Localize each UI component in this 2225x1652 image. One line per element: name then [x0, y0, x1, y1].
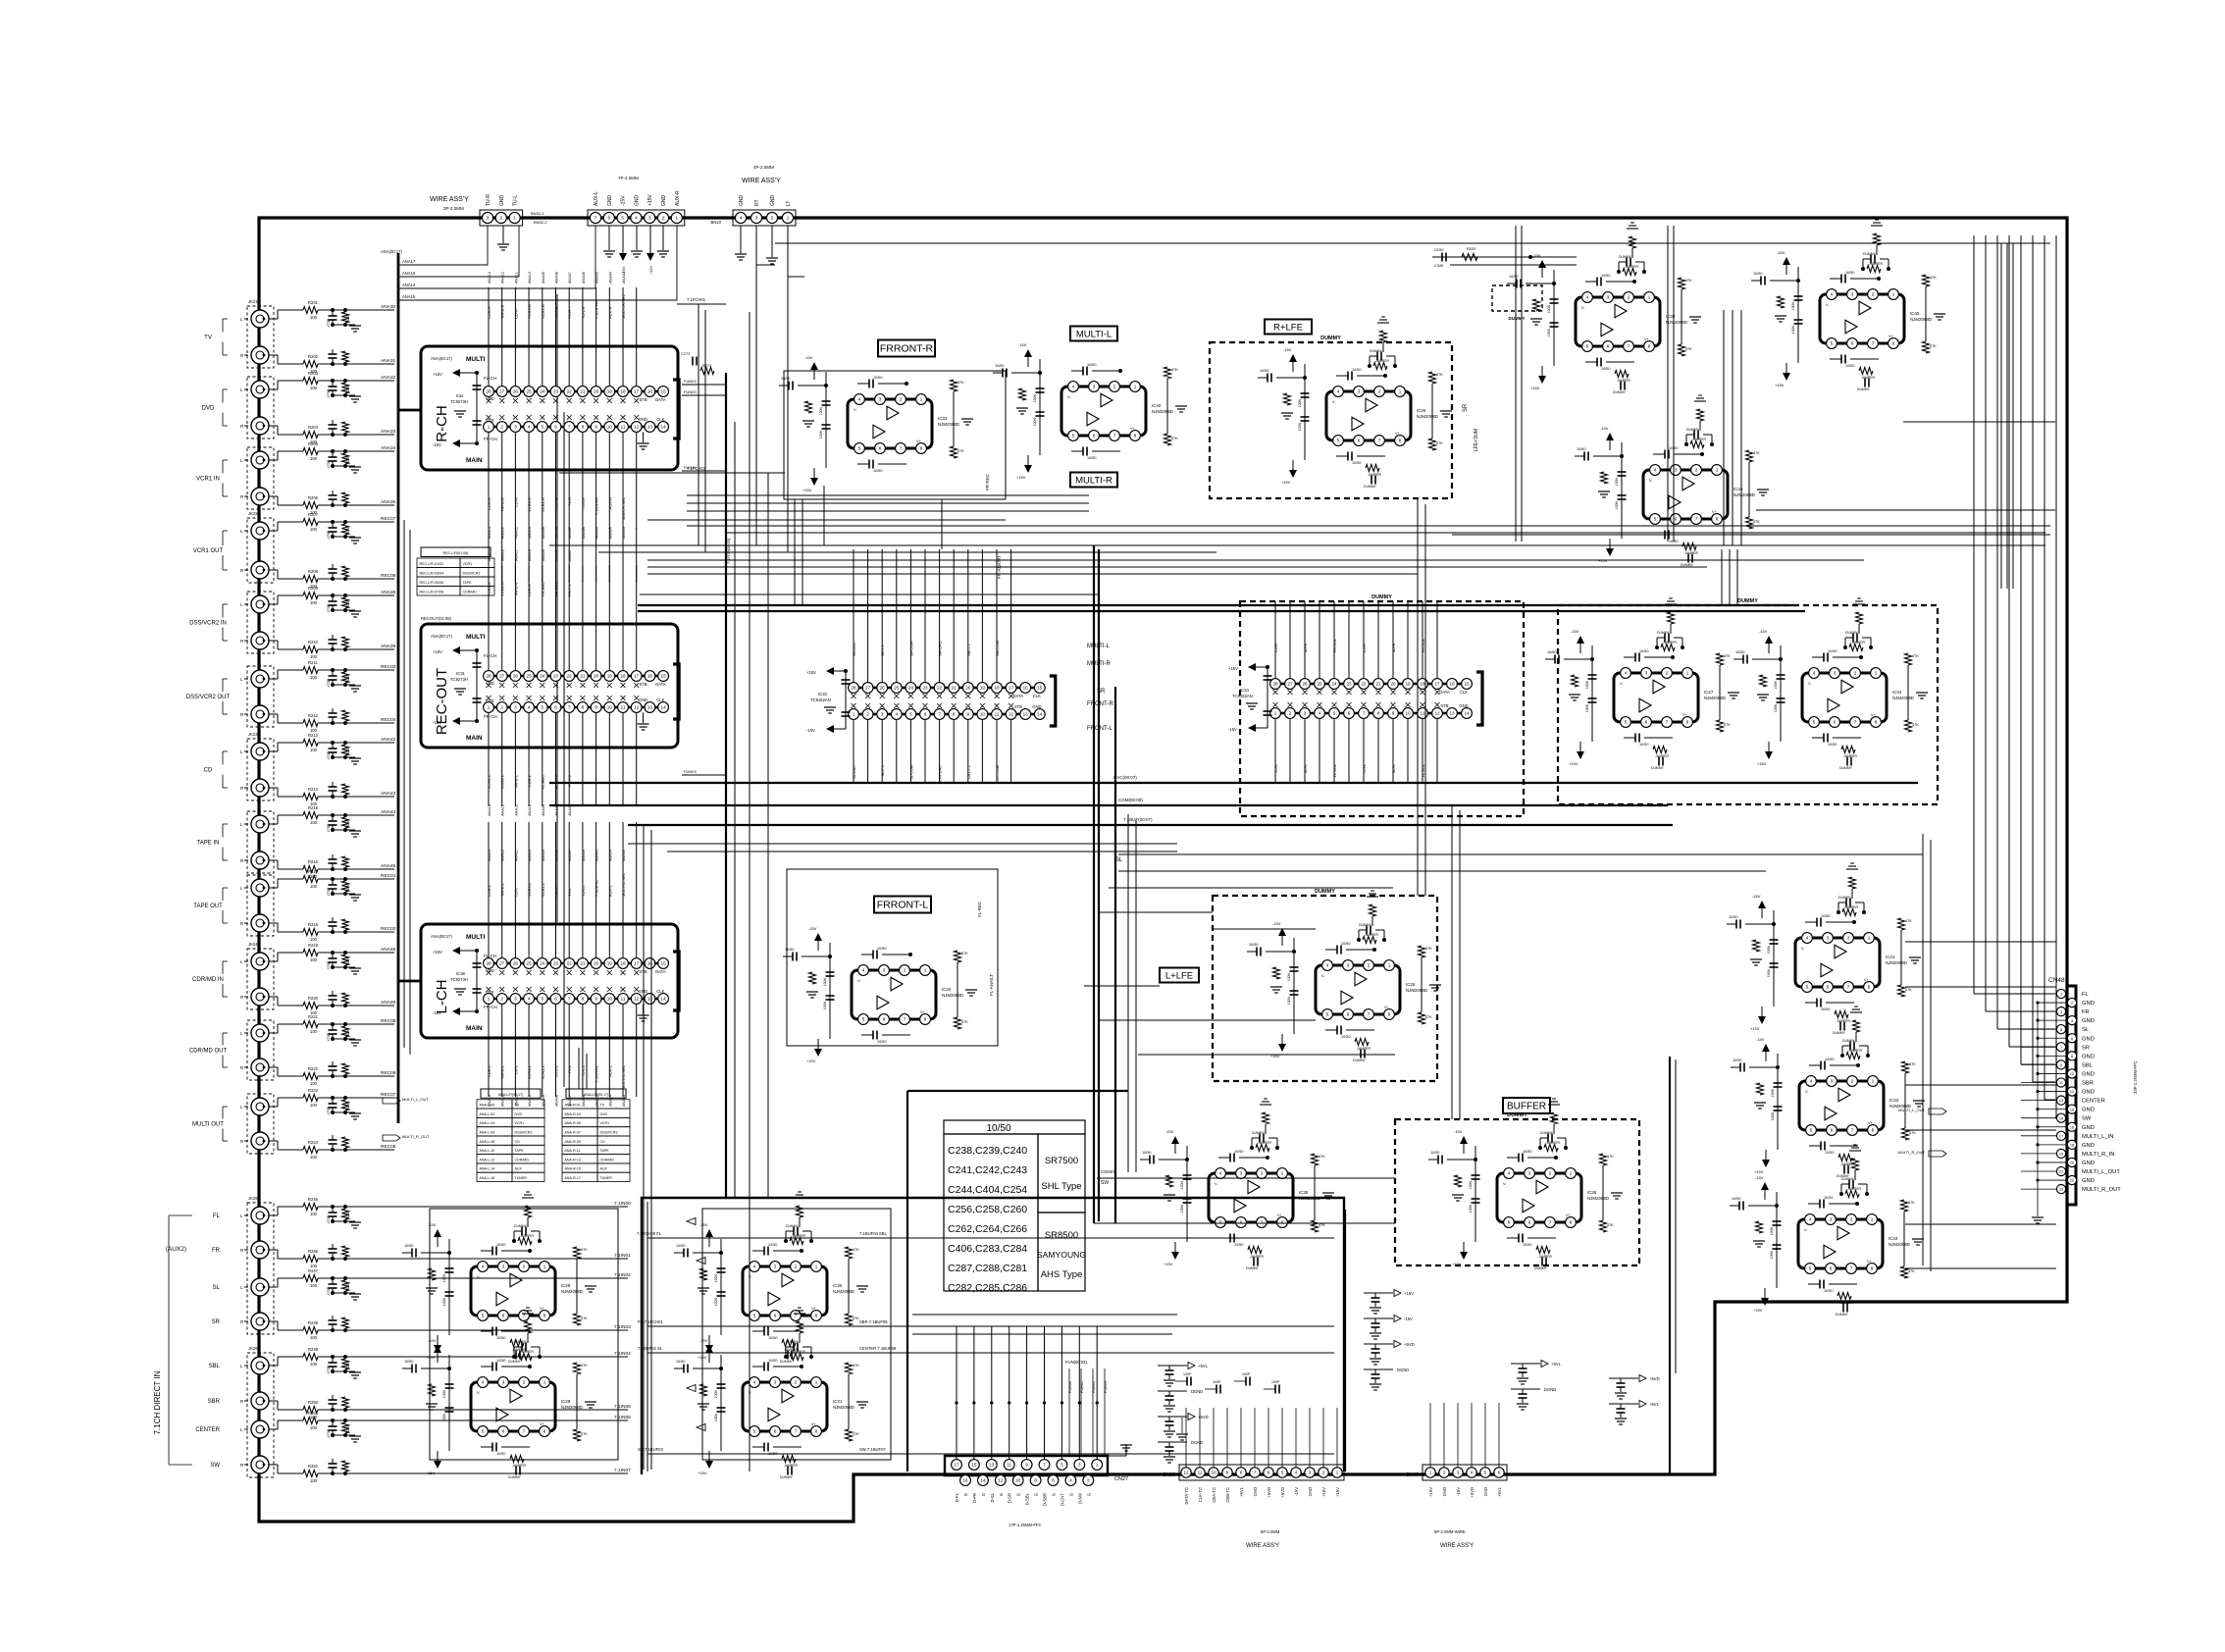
svg-text:REC-L/R(01:08): REC-L/R(01:08): [443, 551, 469, 555]
svg-text:DUMMY: DUMMY: [1863, 252, 1877, 256]
dummy box R+LFE: [1210, 342, 1452, 498]
svg-text:1: 1: [1429, 1471, 1432, 1475]
svg-text:AUX-L: AUX-L: [594, 191, 599, 206]
svg-text:R208: R208: [308, 569, 319, 574]
svg-text:15: 15: [1037, 686, 1043, 691]
svg-text:18: 18: [620, 389, 626, 394]
svg-text:27: 27: [499, 674, 505, 679]
svg-text:TUN-L: TUN-L: [581, 884, 586, 897]
svg-text:GND: GND: [661, 195, 667, 207]
svg-text:DSS/VCR2 OUT: DSS/VCR2 OUT: [186, 695, 231, 700]
svg-text:6: 6: [1607, 344, 1610, 349]
svg-text:100: 100: [310, 1212, 318, 1216]
svg-text:D-FR: D-FR: [972, 1493, 977, 1503]
svg-text:+15V: +15V: [806, 1058, 816, 1063]
svg-text:47K: 47K: [1607, 1155, 1614, 1159]
svg-text:M-FL: M-FL: [1392, 764, 1396, 773]
svg-text:DUMMY: DUMMY: [1657, 631, 1671, 635]
svg-text:3: 3: [1607, 295, 1610, 300]
svg-text:BN47: BN47: [1406, 1472, 1419, 1478]
svg-text:FR-REC: FR-REC: [541, 582, 545, 596]
svg-text:M-FR: M-FR: [1392, 643, 1396, 652]
box quad group left: [430, 1209, 618, 1460]
svg-text:IC38: IC38: [456, 971, 466, 976]
border frame: [259, 218, 2067, 1522]
svg-text:6: 6: [883, 1017, 886, 1022]
svg-text:100: 100: [310, 386, 318, 390]
svg-text:R533: R533: [1467, 247, 1475, 251]
svg-text:6: 6: [1093, 434, 1096, 439]
svg-text:DUMMY: DUMMY: [1315, 889, 1335, 895]
svg-text:82K: 82K: [346, 1283, 350, 1290]
svg-text:V+: V+: [916, 439, 922, 443]
svg-text:15: 15: [1464, 682, 1470, 687]
svg-text:82K: 82K: [346, 820, 350, 827]
svg-text:2: 2: [866, 712, 869, 717]
svg-text:100N: 100N: [1771, 1089, 1775, 1098]
svg-text:6: 6: [608, 216, 611, 221]
svg-text:16: 16: [647, 389, 653, 394]
svg-text:5: 5: [1333, 711, 1336, 716]
svg-text:MULTI_R_OUT: MULTI_R_OUT: [402, 1134, 430, 1139]
svg-text:GND: GND: [2082, 1071, 2095, 1077]
connector BN30: [1179, 1465, 1344, 1480]
svg-text:6: 6: [1358, 439, 1361, 443]
svg-text:DVD-R: DVD-R: [554, 306, 559, 319]
svg-text:3: 3: [1675, 468, 1678, 473]
svg-text:1: 1: [1875, 671, 1878, 676]
svg-text:DSS/VCR2: DSS/VCR2: [463, 572, 481, 576]
svg-text:CNT-DAC: CNT-DAC: [939, 765, 943, 782]
jack group CD: [247, 739, 274, 800]
svg-text:TV-L: TV-L: [567, 888, 572, 897]
svg-text:3: 3: [755, 216, 758, 221]
svg-text:DUMMY: DUMMY: [1320, 336, 1341, 341]
svg-text:-15V: -15V: [433, 720, 441, 725]
svg-text:+5VD: +5VD: [1470, 1487, 1475, 1498]
svg-text:CDR/MD IN: CDR/MD IN: [192, 977, 224, 983]
svg-text:2: 2: [771, 216, 774, 221]
svg-text:IC45: IC45: [1910, 311, 1920, 316]
input filter networks: [269, 318, 278, 320]
svg-text:V+: V+: [1889, 335, 1894, 338]
svg-text:ANA44: ANA44: [381, 809, 396, 815]
svg-text:ANA17: ANA17: [402, 259, 416, 264]
svg-text:10/50: 10/50: [1845, 271, 1855, 275]
svg-text:12: 12: [2070, 1090, 2074, 1094]
svg-text:14: 14: [2070, 1108, 2074, 1111]
svg-text:DUMMY: DUMMY: [786, 1340, 800, 1344]
svg-text:R207: R207: [308, 512, 319, 517]
svg-text:DUMMY: DUMMY: [1613, 390, 1627, 394]
svg-text:D-FR: D-FR: [1363, 644, 1367, 652]
svg-text:1: 1: [488, 997, 491, 1002]
svg-text:100: 100: [310, 1335, 318, 1340]
svg-text:SW-DAC: SW-DAC: [939, 641, 943, 656]
svg-text:6: 6: [2071, 1037, 2073, 1041]
svg-text:47K: 47K: [1912, 723, 1919, 727]
svg-text:10/50: 10/50: [768, 1243, 778, 1247]
svg-text:16: 16: [647, 961, 653, 966]
svg-text:11: 11: [621, 705, 626, 710]
svg-text:8: 8: [1281, 1220, 1284, 1225]
svg-text:33P-1.25MM-FFC: 33P-1.25MM-FFC: [2133, 1060, 2138, 1094]
svg-text:8: 8: [1570, 1220, 1573, 1225]
svg-text:100N: 100N: [714, 1298, 718, 1307]
svg-text:20: 20: [594, 389, 599, 394]
svg-text:R-CH: R-CH: [434, 405, 450, 442]
svg-text:JK21: JK21: [248, 299, 258, 304]
svg-text:100: 100: [310, 937, 318, 942]
svg-text:MAIN: MAIN: [466, 1025, 483, 1032]
svg-text:D-SBR: D-SBR: [1043, 1493, 1048, 1506]
svg-text:-15V: -15V: [804, 355, 813, 360]
svg-text:100N: 100N: [1180, 1181, 1184, 1190]
svg-text:C241,C242,C243: C241,C242,C243: [948, 1164, 1027, 1176]
jack group TAPE IN: [247, 811, 274, 873]
svg-text:14: 14: [1464, 711, 1470, 716]
svg-text:7: 7: [1254, 1471, 1257, 1475]
svg-text:DUMMY: DUMMY: [1833, 1031, 1846, 1035]
svg-text:+15V: +15V: [1228, 666, 1238, 671]
svg-text:7.1IN03: 7.1IN03: [614, 1324, 631, 1330]
svg-text:ANA06: ANA06: [582, 272, 586, 284]
svg-text:1: 1: [1399, 389, 1402, 394]
svg-text:47K: 47K: [1912, 654, 1919, 658]
svg-text:GND: GND: [739, 195, 745, 207]
svg-text:REC02: REC02: [381, 926, 396, 932]
svg-text:10/50: 10/50: [496, 1243, 506, 1247]
svg-text:26: 26: [513, 389, 519, 394]
op-amp IC43: [1798, 1219, 1883, 1268]
svg-text:5: 5: [542, 997, 544, 1002]
svg-text:82K: 82K: [346, 675, 350, 682]
svg-text:FR-ANA: FR-ANA: [554, 582, 559, 596]
svg-text:4: 4: [896, 712, 899, 717]
svg-text:470P: 470P: [327, 887, 331, 896]
svg-text:4: 4: [528, 425, 531, 430]
table capacitor list: [944, 1120, 1085, 1134]
svg-text:CENTER 7.1BUF06: CENTER 7.1BUF06: [859, 1346, 897, 1351]
svg-text:7: 7: [795, 1429, 798, 1434]
svg-text:CDR-L: CDR-L: [487, 884, 492, 897]
svg-text:JK26: JK26: [248, 1346, 258, 1351]
svg-text:CNT-COM: CNT-COM: [996, 765, 1000, 783]
svg-text:10/50: 10/50: [986, 1123, 1010, 1134]
svg-text:26: 26: [513, 961, 519, 966]
svg-text:10/50: 10/50: [877, 1040, 887, 1044]
svg-text:NJM2068D: NJM2068D: [938, 422, 959, 427]
svg-text:100N: 100N: [1287, 997, 1291, 1006]
svg-text:CDR-L: CDR-L: [487, 1064, 492, 1077]
svg-text:V+: V+: [1130, 427, 1136, 431]
svg-text:2: 2: [523, 1380, 526, 1385]
jack group VCR1 OUT: [247, 518, 274, 583]
svg-text:CNT-7.1: CNT-7.1: [967, 765, 971, 779]
svg-text:FL-VOL: FL-VOL: [1333, 764, 1337, 777]
svg-text:V+: V+: [1682, 713, 1688, 717]
svg-text:DUMMY: DUMMY: [1836, 1313, 1849, 1316]
svg-text:ANA38: ANA38: [381, 590, 396, 595]
svg-text:8: 8: [1872, 1128, 1875, 1133]
jack group MULTI OUT: [247, 1094, 274, 1154]
op-amp IC29: [471, 1382, 555, 1431]
svg-text:3: 3: [514, 997, 517, 1002]
svg-text:DATA: DATA: [655, 682, 666, 687]
svg-text:82K: 82K: [346, 1362, 350, 1368]
svg-text:5: 5: [1326, 1012, 1329, 1017]
mesh bottom right: [1127, 814, 1129, 1172]
svg-text:2: 2: [1378, 389, 1381, 394]
svg-text:CENTER: CENTER: [195, 1427, 220, 1433]
svg-text:13: 13: [647, 705, 653, 710]
svg-text:10/50: 10/50: [785, 948, 795, 952]
svg-text:+5VD: +5VD: [1198, 1415, 1209, 1420]
svg-text:10/50: 10/50: [768, 1359, 778, 1363]
svg-text:6: 6: [502, 1314, 505, 1318]
svg-text:D-SW: D-SW: [1077, 1493, 1082, 1504]
svg-text:2: 2: [1549, 1171, 1552, 1176]
svg-text:100: 100: [310, 1081, 318, 1086]
svg-text:1: 1: [853, 712, 855, 717]
svg-text:7.1BUF04 SBL: 7.1BUF04 SBL: [859, 1231, 888, 1236]
svg-text:10/50: 10/50: [1732, 1197, 1741, 1201]
svg-text:5: 5: [542, 425, 544, 430]
svg-text:5: 5: [482, 1429, 485, 1434]
svg-text:6: 6: [554, 425, 557, 430]
svg-text:28: 28: [1272, 682, 1278, 687]
svg-text:MULTI-L-SEL: MULTI-L-SEL: [621, 872, 626, 897]
svg-text:SR: SR: [1463, 403, 1469, 412]
svg-text:D-FL: D-FL: [1363, 764, 1367, 772]
svg-text:7.1IN06: 7.1IN06: [614, 1415, 631, 1420]
svg-text:10/50: 10/50: [1352, 461, 1362, 465]
svg-text:26: 26: [513, 674, 519, 679]
svg-text:ANA09: ANA09: [542, 272, 545, 284]
svg-text:14: 14: [1037, 712, 1043, 717]
svg-text:23: 23: [1346, 682, 1352, 687]
svg-text:DUMMY: DUMMY: [1841, 1177, 1855, 1181]
svg-text:1: 1: [488, 705, 491, 710]
svg-text:7: 7: [568, 425, 571, 430]
svg-text:13: 13: [2059, 1099, 2063, 1103]
svg-text:18: 18: [994, 686, 1000, 691]
svg-text:SW: SW: [210, 1463, 220, 1469]
svg-text:100: 100: [310, 654, 318, 659]
svg-text:DSS/VCR3: DSS/VCR3: [600, 1131, 618, 1135]
svg-text:2: 2: [1850, 1217, 1853, 1222]
svg-text:TC9162AN: TC9162AN: [1232, 694, 1253, 698]
svg-text:SR: SR: [2082, 1045, 2090, 1051]
svg-text:11: 11: [621, 997, 626, 1002]
svg-text:47K: 47K: [1724, 723, 1731, 727]
svg-text:19: 19: [1405, 682, 1411, 687]
svg-text:+5VD: +5VD: [1267, 1487, 1271, 1498]
svg-text:R212: R212: [308, 713, 319, 718]
IC K32 R-CH selector: [421, 346, 678, 470]
svg-text:100N: 100N: [1767, 946, 1771, 955]
svg-text:1: 1: [924, 968, 927, 973]
svg-text:ANA35: ANA35: [381, 499, 396, 505]
svg-text:7.1IN05: 7.1IN05: [614, 1404, 631, 1410]
svg-text:10/50: 10/50: [1828, 743, 1837, 747]
svg-text:+15V: +15V: [1016, 475, 1026, 480]
svg-text:47K: 47K: [853, 1364, 859, 1368]
svg-text:+15V: +15V: [1428, 1487, 1433, 1497]
svg-text:100N: 100N: [1774, 681, 1778, 690]
svg-text:ANA33: ANA33: [381, 429, 396, 435]
svg-text:3: 3: [1645, 671, 1648, 676]
svg-text:7: 7: [1872, 341, 1875, 346]
svg-text:DATA: DATA: [1439, 690, 1450, 695]
svg-text:ANA-L-14: ANA-L-14: [480, 1167, 495, 1171]
svg-text:7: 7: [1368, 1012, 1371, 1017]
svg-text:5: 5: [1813, 720, 1816, 725]
svg-text:5: 5: [542, 705, 544, 710]
svg-text:22: 22: [567, 389, 573, 394]
svg-text:SR: SR: [212, 1319, 221, 1325]
op-amp IC35: [1209, 1173, 1293, 1222]
box FRRONT-L circuit: [787, 869, 998, 1046]
svg-text:STB: STB: [1440, 703, 1448, 708]
svg-text:1: 1: [1716, 468, 1719, 473]
svg-text:FUN01: FUN01: [684, 465, 697, 470]
svg-text:WIRE ASS'Y: WIRE ASS'Y: [1440, 1543, 1474, 1549]
svg-text:2: 2: [900, 397, 903, 402]
svg-text:10/50: 10/50: [1824, 1289, 1834, 1293]
jack group CDR/MD OUT: [247, 1020, 274, 1080]
svg-text:10/50: 10/50: [496, 1336, 506, 1340]
svg-text:-15V: -15V: [699, 1222, 708, 1227]
svg-text:-15V: -15V: [1600, 426, 1609, 431]
svg-text:3: 3: [487, 216, 490, 221]
svg-text:47K: 47K: [1905, 919, 1912, 923]
svg-text:7: 7: [1261, 1220, 1264, 1225]
svg-text:SR-7.1: SR-7.1: [881, 645, 885, 656]
svg-text:100N: 100N: [714, 1390, 718, 1399]
svg-text:FUN02: FUN02: [684, 379, 697, 384]
svg-text:100: 100: [310, 527, 318, 532]
svg-text:100N: 100N: [1298, 423, 1302, 432]
svg-text:10/50: 10/50: [1733, 1058, 1742, 1062]
svg-text:10/50: 10/50: [1828, 649, 1837, 653]
svg-text:10/50: 10/50: [1547, 650, 1557, 654]
jack group CDR/MD IN: [247, 949, 274, 1009]
svg-text:2: 2: [1261, 1171, 1264, 1176]
routed wires right: [1515, 226, 1517, 542]
svg-text:47K: 47K: [1319, 1155, 1325, 1159]
svg-text:ANA13: ANA13: [488, 804, 492, 816]
svg-text:7.1FCH(00:03): 7.1FCH(00:03): [726, 538, 731, 564]
svg-text:REC03: REC03: [381, 664, 396, 670]
svg-text:FR: FR: [2082, 1009, 2090, 1015]
table ANA-L: [481, 1089, 541, 1098]
svg-text:FR-CH: FR-CH: [484, 714, 497, 719]
svg-text:SR7500: SR7500: [1045, 1156, 1078, 1166]
svg-text:ANA05: ANA05: [595, 272, 599, 284]
svg-text:6: 6: [774, 1429, 777, 1434]
wires to CN48: [1973, 235, 1975, 994]
svg-text:SR-COM: SR-COM: [909, 642, 913, 656]
svg-text:10/50: 10/50: [1845, 364, 1855, 368]
svg-text:MULTI_R_OUT: MULTI_R_OUT: [1898, 1150, 1926, 1155]
svg-text:DGND: DGND: [1191, 1440, 1203, 1445]
svg-text:NJM2068D: NJM2068D: [1886, 960, 1907, 965]
svg-text:100: 100: [310, 456, 318, 461]
svg-text:ANA-L/R(00:17): ANA-L/R(00:17): [498, 1093, 524, 1097]
svg-text:8: 8: [1892, 341, 1895, 346]
svg-text:FL-VOL: FL-VOL: [1422, 764, 1425, 777]
svg-text:10/50: 10/50: [1824, 1196, 1834, 1200]
svg-text:100: 100: [310, 315, 318, 320]
svg-text:11: 11: [621, 425, 626, 430]
svg-text:5: 5: [1806, 985, 1809, 990]
svg-text:14: 14: [661, 997, 667, 1002]
svg-text:CLK: CLK: [656, 989, 664, 994]
svg-text:ANA48: ANA48: [381, 947, 396, 953]
svg-text:20: 20: [2070, 1162, 2074, 1165]
svg-text:R246: R246: [308, 1249, 319, 1254]
svg-text:BN10: BN10: [711, 220, 722, 225]
svg-text:8: 8: [815, 1429, 818, 1434]
svg-text:470P: 470P: [327, 1106, 331, 1114]
svg-text:1: 1: [1336, 1471, 1339, 1475]
svg-text:8: 8: [920, 446, 923, 451]
svg-text:10/50: 10/50: [1821, 914, 1831, 918]
jack group VCR1 IN: [247, 447, 274, 509]
svg-text:2: 2: [500, 216, 503, 221]
svg-text:TV: TV: [600, 1104, 605, 1108]
svg-text:47K: 47K: [581, 1316, 588, 1320]
svg-text:+15V: +15V: [1775, 383, 1785, 387]
svg-text:TC9273H: TC9273H: [450, 977, 468, 982]
svg-text:100P: 100P: [1183, 1372, 1192, 1376]
svg-text:23: 23: [922, 686, 928, 691]
svg-text:NJM2068D: NJM2068D: [1889, 1242, 1910, 1247]
svg-text:FR-CH: FR-CH: [484, 437, 497, 441]
svg-text:G: G: [1068, 1493, 1073, 1496]
svg-text:TUN-L: TUN-L: [581, 1064, 586, 1077]
svg-text:D-FL: D-FL: [955, 1492, 959, 1502]
gap wires below FRRONT-R: [794, 499, 796, 605]
svg-text:10/50: 10/50: [1341, 1035, 1351, 1039]
label MULTI-L: [1070, 327, 1117, 341]
svg-text:47K: 47K: [1607, 1223, 1614, 1227]
svg-text:GND: GND: [1459, 703, 1468, 708]
svg-text:5: 5: [1809, 1266, 1812, 1271]
svg-text:RT: RT: [754, 199, 760, 206]
svg-text:100N: 100N: [1547, 305, 1551, 314]
svg-text:5: 5: [1072, 434, 1075, 439]
svg-text:3: 3: [502, 1265, 505, 1269]
svg-text:ANA(00:17): ANA(00:17): [431, 634, 452, 639]
svg-text:DUMMY: DUMMY: [1842, 1039, 1856, 1043]
svg-text:R214: R214: [308, 787, 319, 792]
svg-text:1: 1: [1648, 295, 1651, 300]
svg-text:47K: 47K: [1436, 441, 1443, 445]
svg-text:TC9162AN: TC9162AN: [810, 697, 831, 702]
svg-text:7: 7: [900, 446, 903, 451]
svg-text:V+: V+: [920, 1010, 926, 1014]
svg-text:GND: GND: [1253, 1487, 1258, 1496]
svg-text:CN27: CN27: [1114, 1476, 1128, 1482]
svg-text:3: 3: [514, 705, 517, 710]
svg-text:ANA14: ANA14: [402, 283, 416, 287]
svg-text:CEA-TC: CEA-TC: [1212, 1487, 1216, 1503]
svg-text:100P: 100P: [1271, 1380, 1280, 1384]
svg-text:10/50: 10/50: [873, 469, 883, 473]
svg-text:DAC(00:07): DAC(00:07): [1113, 775, 1137, 780]
